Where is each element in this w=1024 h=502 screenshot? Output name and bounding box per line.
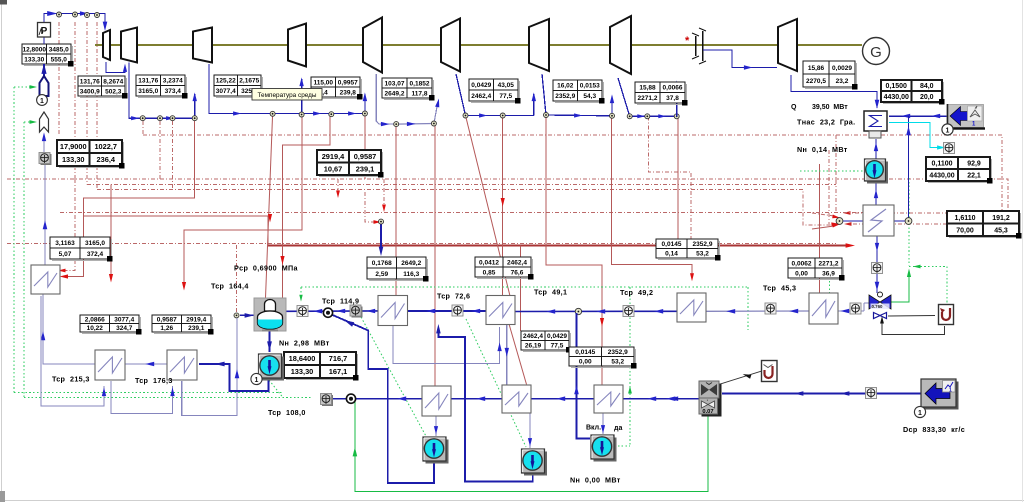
- svg-text:0,00: 0,00: [579, 359, 592, 366]
- wire extr dash v6: [159, 121, 161, 179]
- node deaerator in: [234, 313, 239, 318]
- table T14: [59, 167, 124, 169]
- svg-text:53,2: 53,2: [696, 251, 709, 258]
- svg-text:Pcp 0,6900 МПа: Pcp 0,6900 МПа: [234, 264, 299, 273]
- svg-text:1,26: 1,26: [160, 325, 173, 332]
- wire condensate D: [706, 310, 809, 312]
- valve main: [869, 295, 880, 309]
- svg-text:P: P: [41, 26, 48, 37]
- node drain header: [346, 394, 355, 403]
- wire red v x364: [364, 113, 366, 179]
- heater E1: [378, 296, 408, 326]
- pump P5: [867, 162, 888, 184]
- heater H1: [95, 350, 125, 380]
- svg-text:2649,2: 2649,2: [401, 260, 421, 267]
- node r2d: [362, 111, 367, 116]
- svg-text:0.760: 0.760: [872, 304, 884, 309]
- meas m9: [872, 263, 883, 274]
- wire U1 loop: [882, 321, 945, 335]
- svg-text:39,50 МВт: 39,50 МВт: [812, 104, 848, 111]
- meas m16: [866, 388, 877, 399]
- wire red main header: [268, 245, 848, 247]
- wire red into left heater dash: [64, 179, 75, 271]
- node r4a: [463, 113, 468, 118]
- turbine LP stage 1: [441, 19, 460, 72]
- turbine nozzle section: [103, 30, 110, 60]
- corner mark top-left: [0, 0, 7, 5]
- wire riser T_e: [364, 94, 366, 114]
- svg-text:Тнас 23,2 Гра.: Тнас 23,2 Гра.: [797, 118, 856, 127]
- svg-text:0,0062: 0,0062: [792, 260, 812, 267]
- wire E5 down: [876, 236, 878, 293]
- wire FW riser: [44, 164, 46, 265]
- svg-text:0,9957: 0,9957: [338, 79, 358, 86]
- drain cooler D2: [502, 385, 531, 413]
- circled 1 B1: [942, 124, 953, 135]
- wire steam supply node E1: [365, 192, 375, 222]
- wire crossover pipe: [703, 50, 777, 68]
- meas m1: [41, 154, 52, 165]
- node t4: [95, 13, 100, 18]
- table T4: [216, 97, 263, 99]
- svg-text:Tcp 164,4: Tcp 164,4: [211, 282, 249, 291]
- svg-text:0,85: 0,85: [483, 269, 496, 276]
- svg-text:0,0412: 0,0412: [479, 259, 499, 266]
- svg-text:77,5: 77,5: [499, 93, 512, 100]
- node r4b: [500, 113, 505, 118]
- svg-text:2462,4: 2462,4: [471, 93, 491, 100]
- valve small: [874, 313, 881, 319]
- svg-text:23,2: 23,2: [836, 78, 849, 85]
- node r3a: [431, 121, 436, 126]
- wire D3-P4: [602, 413, 604, 434]
- svg-text:191,2: 191,2: [992, 215, 1010, 222]
- svg-text:5,07: 5,07: [59, 251, 72, 258]
- wire extr dash v5: [142, 121, 144, 135]
- wire header R5: [542, 74, 612, 116]
- wire P1 discharge: [199, 364, 269, 391]
- node r1a: [140, 116, 145, 121]
- svg-text:0,0145: 0,0145: [575, 349, 595, 356]
- wire valve drain link: [888, 315, 935, 318]
- svg-text:716,7: 716,7: [329, 354, 348, 363]
- wire riser T_c: [194, 94, 196, 118]
- generator G: [863, 38, 890, 65]
- svg-text:2271,2: 2271,2: [638, 95, 658, 102]
- wire red dash x648: [649, 117, 691, 251]
- wire green dot P1 diag: [269, 380, 283, 398]
- meas m7: [765, 303, 776, 314]
- table T24: [523, 351, 571, 353]
- wire E5 left: [841, 220, 863, 222]
- wire condenser-P5: [875, 139, 877, 159]
- svg-text:0,0145: 0,0145: [662, 241, 682, 248]
- wire green dot v left 2: [23, 122, 25, 398]
- svg-text:0,14: 0,14: [665, 251, 678, 258]
- svg-text:0,1100: 0,1100: [931, 161, 952, 168]
- svg-text:133,30: 133,30: [62, 155, 85, 164]
- node r1b: [158, 116, 163, 121]
- wire riser T_d: [301, 79, 303, 114]
- wire green dot v x748: [747, 287, 749, 330]
- wire riser crossover: [676, 82, 678, 116]
- node r3a0: [394, 122, 399, 127]
- wire red v to T19: [677, 117, 679, 240]
- svg-text:да: да: [614, 425, 622, 432]
- svg-text:37,8: 37,8: [666, 95, 679, 102]
- turbine shaft: [95, 44, 862, 46]
- wire red header riser: [819, 164, 821, 293]
- svg-text:372,4: 372,4: [87, 251, 104, 258]
- source pentagon 1: [43, 64, 45, 76]
- shaft coupling: [695, 36, 697, 56]
- table T18: [477, 278, 533, 280]
- svg-text:0,0029: 0,0029: [832, 65, 852, 72]
- wire extr dash v2: [74, 22, 76, 179]
- svg-text:133,30: 133,30: [24, 56, 44, 63]
- icon B1 source: [947, 105, 984, 128]
- icon B2 sink: [924, 382, 959, 410]
- svg-text:0,1852: 0,1852: [410, 80, 430, 87]
- wire drain header c: [531, 398, 594, 400]
- svg-text:76,6: 76,6: [511, 269, 524, 276]
- svg-text:3077,4: 3077,4: [216, 88, 236, 95]
- wire cyan circ: [889, 123, 939, 148]
- meas m2: [297, 306, 308, 317]
- wire condensate B: [407, 310, 486, 312]
- condenser: [864, 111, 887, 131]
- svg-text:10,67: 10,67: [324, 164, 343, 173]
- wire red slant to D2: [509, 324, 527, 384]
- wire B2 line: [722, 393, 922, 395]
- svg-text:*: *: [685, 35, 690, 47]
- svg-text:2462,4: 2462,4: [523, 333, 543, 340]
- wire P controller line: [44, 14, 97, 24]
- wire LP exhaust: [791, 75, 877, 108]
- svg-text:3077,4: 3077,4: [114, 317, 134, 324]
- table T21: [82, 333, 141, 335]
- wire extr dash v3: [86, 22, 88, 185]
- wire extr dash v1: [58, 22, 60, 135]
- wire green dot v left 1: [13, 87, 15, 392]
- wire FW H1-Eleft: [43, 294, 95, 364]
- wire P3 discharge: [438, 328, 532, 482]
- wire red slant to E2: [466, 116, 511, 297]
- wire drain header a: [332, 398, 422, 400]
- heater E2: [486, 296, 515, 325]
- svg-text:77,5: 77,5: [551, 343, 564, 350]
- wire green dot bottom h1: [14, 391, 283, 393]
- wire header R4: [456, 74, 534, 116]
- svg-text:Tcp 49,1: Tcp 49,1: [534, 288, 567, 297]
- meas m10: [944, 143, 955, 154]
- shaft tick: [295, 37, 297, 53]
- svg-text:0,0429: 0,0429: [471, 82, 491, 89]
- table T9: [637, 104, 687, 106]
- svg-text:0,0429: 0,0429: [547, 333, 567, 340]
- svg-text:239,8: 239,8: [340, 89, 357, 96]
- svg-text:0,0066: 0,0066: [663, 85, 683, 92]
- svg-text:3485,0: 3485,0: [49, 46, 69, 53]
- svg-text:2352,9: 2352,9: [608, 349, 628, 356]
- table T2: [80, 97, 127, 99]
- node r5a: [544, 113, 549, 118]
- wire B1 to condenser: [889, 115, 947, 117]
- wire condensate riser: [894, 116, 909, 221]
- wire E1 drain: [393, 325, 500, 364]
- node r1bb: [170, 116, 175, 121]
- wire red ext2 to Eleft: [66, 118, 195, 277]
- heater E5: [863, 205, 894, 236]
- table T6: [384, 99, 434, 101]
- svg-text:236,4: 236,4: [97, 155, 116, 164]
- meas m4: [452, 305, 463, 316]
- wire green dot v x630: [629, 287, 631, 446]
- wire green dot P4 link: [614, 445, 630, 447]
- wire P4 discharge: [577, 313, 591, 439]
- svg-text:2919,4: 2919,4: [322, 152, 345, 161]
- svg-text:Вкл.: Вкл.: [586, 425, 601, 432]
- turbine IP stage 2: [363, 18, 382, 73]
- svg-text:22,1: 22,1: [967, 173, 981, 180]
- svg-text:3165,0: 3165,0: [85, 240, 105, 247]
- svg-text:92,9: 92,9: [967, 161, 981, 168]
- wire extr dash v6b: [172, 121, 174, 190]
- tooltip: [252, 89, 322, 101]
- wire green valve link: [891, 272, 909, 302]
- svg-text:17,9000: 17,9000: [60, 142, 87, 151]
- table T16: [52, 260, 112, 262]
- wire drain header d: [623, 398, 699, 400]
- wire red v to T24: [519, 246, 521, 332]
- pump P3: [524, 452, 547, 476]
- wire extr dash v4: [96, 22, 98, 190]
- turbine HP stage 2: [193, 28, 212, 63]
- wire Te drain: [376, 74, 396, 124]
- wire condensate E: [838, 310, 864, 312]
- wire green dot deaerator v: [300, 287, 302, 302]
- svg-text:2270,5: 2270,5: [806, 78, 826, 85]
- node t3: [85, 13, 90, 18]
- svg-text:0.07: 0.07: [702, 409, 713, 415]
- svg-text:2271,2: 2271,2: [819, 260, 839, 267]
- svg-text:12,8000: 12,8000: [23, 46, 47, 53]
- svg-text:Tcp 72,6: Tcp 72,6: [437, 292, 470, 301]
- svg-text:Q: Q: [791, 104, 797, 111]
- svg-text:⋆: ⋆: [706, 398, 709, 403]
- table T11: [883, 103, 944, 105]
- wire riser T_h: [611, 96, 613, 116]
- meas m11: [322, 395, 333, 406]
- wire red deaerator feed 1: [266, 114, 273, 298]
- meas m8: [850, 303, 861, 314]
- wire H1 drain: [111, 381, 173, 414]
- meas m6: [623, 306, 634, 317]
- heater E4: [809, 293, 838, 324]
- svg-text:1022,7: 1022,7: [94, 142, 117, 151]
- circled 1 P1: [251, 373, 262, 384]
- svg-text:43,05: 43,05: [498, 82, 515, 89]
- node deaerator out: [323, 308, 332, 317]
- svg-text:239,1: 239,1: [188, 325, 205, 332]
- wire header R6: [618, 78, 677, 116]
- svg-text:Tcp 215,3: Tcp 215,3: [52, 375, 90, 384]
- turbine LP stage 4: [778, 19, 797, 71]
- wire red arrows into E5: [812, 213, 834, 216]
- wire deaerator feedline: [240, 314, 254, 316]
- svg-text:Tcp 108,0: Tcp 108,0: [268, 408, 306, 417]
- node red E5: [836, 218, 843, 225]
- table T20: [790, 279, 844, 281]
- turbine LP stage 3: [610, 16, 631, 74]
- svg-text:18,6400: 18,6400: [289, 354, 316, 363]
- svg-text:2649,2: 2649,2: [385, 90, 405, 97]
- svg-text:2462,4: 2462,4: [507, 259, 527, 266]
- wire green dot E4: [829, 258, 831, 293]
- svg-text:125,22: 125,22: [216, 78, 236, 85]
- wire P2 to deaerator: [328, 313, 434, 483]
- svg-text:0,00: 0,00: [795, 270, 808, 277]
- table T22: [154, 333, 213, 335]
- svg-text:1: 1: [40, 98, 44, 105]
- table T7: [471, 102, 520, 104]
- wire green dot right h: [909, 266, 947, 268]
- table T25: [571, 367, 636, 369]
- svg-text:0,0153: 0,0153: [580, 83, 600, 90]
- wire Eleft drain: [41, 296, 104, 406]
- P controller: [38, 23, 51, 38]
- wire condensate A: [286, 310, 378, 312]
- table T23: [286, 379, 358, 381]
- table T5: [313, 98, 362, 100]
- wire dash arrow E1: [383, 179, 385, 206]
- svg-text:1: 1: [949, 388, 952, 394]
- wire riser T_f: [434, 104, 438, 124]
- svg-text:131,76: 131,76: [138, 78, 158, 85]
- svg-text:324,7: 324,7: [116, 325, 133, 332]
- svg-text:117,8: 117,8: [412, 90, 428, 97]
- wire P1 feed: [269, 331, 271, 352]
- wire D1-P2: [435, 416, 437, 436]
- wire header R2: [209, 64, 365, 114]
- svg-text:133,30: 133,30: [291, 367, 314, 376]
- wire E2 drain: [506, 325, 508, 385]
- wire red v T17-E1: [395, 124, 397, 296]
- wire green dot bottom h2: [24, 397, 313, 399]
- wire red v to E2 top: [502, 116, 504, 297]
- meas m3: [352, 307, 363, 318]
- wire red ext3 down: [184, 115, 302, 285]
- node r1c: [192, 116, 197, 121]
- drain cooler D1: [422, 386, 451, 416]
- svg-text:131,76: 131,76: [80, 78, 100, 85]
- table T15: [319, 176, 383, 178]
- wire red v x111: [110, 185, 112, 277]
- svg-text:555,0: 555,0: [51, 56, 68, 63]
- wire P5-E5: [875, 181, 877, 205]
- wire red h y216: [84, 216, 269, 246]
- wire green dot U1 link: [946, 267, 948, 304]
- table T17: [369, 280, 428, 282]
- svg-text:Tcp 45,3: Tcp 45,3: [763, 284, 796, 293]
- svg-text:2,1675: 2,1675: [239, 78, 259, 85]
- table T1: [24, 65, 73, 67]
- svg-text:115,00: 115,00: [313, 79, 333, 86]
- node r5b: [610, 113, 615, 118]
- wire D2-P3: [529, 413, 531, 448]
- node r2b: [299, 112, 304, 117]
- wire red F to E3: [612, 116, 692, 276]
- node t2: [73, 12, 78, 17]
- svg-text:1,6110: 1,6110: [954, 215, 975, 222]
- drain cooler D3: [594, 385, 623, 413]
- window edge bottom: [0, 499, 1024, 501]
- svg-text:4430,00: 4430,00: [884, 94, 909, 101]
- wire ejector-U2: [719, 371, 762, 385]
- node r2c: [329, 112, 334, 117]
- deaerator: [254, 298, 286, 331]
- wire FW to sink: [43, 136, 45, 152]
- turbine HP stage 1: [121, 28, 137, 63]
- wire green dot diag m3-P2: [361, 317, 427, 438]
- svg-text:16,02: 16,02: [557, 83, 574, 90]
- svg-text:Nн 0,00 МВт: Nн 0,00 МВт: [570, 476, 621, 485]
- wire red v to D1: [434, 124, 436, 387]
- node r6c: [674, 114, 679, 119]
- wire ejector suction: [666, 398, 699, 400]
- svg-text:Температура среды: Температура среды: [258, 92, 317, 99]
- wire green dot diag E2-P3: [466, 319, 526, 447]
- svg-text:Nн 2,98 МВт: Nн 2,98 МВт: [279, 339, 330, 348]
- wire dash header h4: [97, 190, 833, 226]
- turbine LP stage 2: [529, 19, 549, 71]
- wire drain header b: [451, 398, 502, 400]
- wire dash header h3: [87, 184, 836, 186]
- svg-text:45,3: 45,3: [994, 227, 1008, 234]
- table T3: [138, 97, 187, 99]
- svg-text:116,3: 116,3: [403, 271, 419, 278]
- svg-text:84,0: 84,0: [920, 83, 934, 90]
- wire green dot P5 link: [800, 170, 863, 172]
- node r2a: [270, 111, 275, 116]
- circled 1 source: [37, 95, 48, 106]
- svg-text:239,1: 239,1: [356, 164, 375, 173]
- node riser: [905, 218, 912, 225]
- node t1: [57, 12, 62, 17]
- svg-text:15,88: 15,88: [639, 85, 656, 92]
- node r6b: [645, 114, 650, 119]
- left heater Eleft: [31, 265, 60, 294]
- wire header R3: [396, 123, 434, 126]
- svg-text:8,2674: 8,2674: [103, 78, 123, 85]
- svg-text:2,59: 2,59: [375, 271, 388, 278]
- wire green makeup: [355, 402, 708, 492]
- wire green arrow source 1: [14, 86, 30, 88]
- node r6a: [627, 114, 632, 119]
- ejector: [702, 384, 722, 417]
- svg-text:53,2: 53,2: [611, 359, 624, 366]
- wire red deaerator feed 2: [283, 114, 331, 299]
- circled 1 B2: [914, 406, 925, 417]
- node condensate: [575, 308, 581, 314]
- wire dash v right a: [835, 135, 837, 213]
- wire red E to D3: [546, 115, 602, 385]
- svg-text:103,07: 103,07: [385, 80, 405, 87]
- svg-text:Nн 0,14 МВт: Nн 0,14 МВт: [797, 145, 848, 154]
- svg-text:Tcp 49,2: Tcp 49,2: [620, 288, 653, 297]
- svg-text:Tcp 114,9: Tcp 114,9: [322, 297, 359, 306]
- svg-text:2,0866: 2,0866: [85, 317, 105, 324]
